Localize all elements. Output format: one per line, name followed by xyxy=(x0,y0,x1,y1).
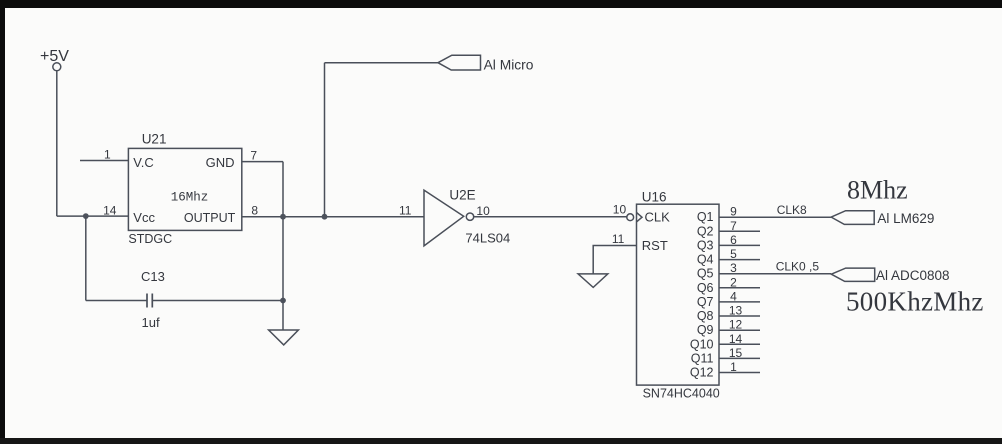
svg-text:V.C: V.C xyxy=(133,155,153,170)
Q6 pin 2 wire xyxy=(719,287,760,289)
svg-text:Q9: Q9 xyxy=(697,323,714,337)
wire xyxy=(282,162,284,330)
flag Al Micro xyxy=(438,55,534,72)
svg-text:Q6: Q6 xyxy=(697,281,714,295)
svg-text:12: 12 xyxy=(729,318,743,332)
counter U16 xyxy=(612,190,720,401)
svg-text:Al LM629: Al LM629 xyxy=(877,211,934,226)
power +5V xyxy=(40,48,69,71)
svg-text:6: 6 xyxy=(730,233,737,247)
Q12 pin 1 wire xyxy=(719,372,760,374)
junction xyxy=(280,298,286,304)
Q outputs xyxy=(719,217,831,372)
svg-text:5: 5 xyxy=(730,247,737,261)
flag Al ADC0808 xyxy=(831,268,874,281)
svg-text:Q2: Q2 xyxy=(697,224,714,238)
wire pin 7 GND xyxy=(242,161,283,163)
wire xyxy=(86,300,147,302)
svg-text:15: 15 xyxy=(729,346,743,360)
wire xyxy=(57,215,129,217)
Q8 pin 13 wire xyxy=(719,315,760,317)
svg-text:STDGC: STDGC xyxy=(128,232,172,246)
svg-text:9: 9 xyxy=(730,205,737,219)
svg-text:Q4: Q4 xyxy=(697,253,714,267)
svg-text:Q8: Q8 xyxy=(697,309,714,323)
svg-text:13: 13 xyxy=(729,304,743,318)
svg-text:U16: U16 xyxy=(642,190,667,205)
Q1 pin 9 wire xyxy=(719,216,831,218)
flag Al LM629 xyxy=(831,211,874,225)
svg-text:4: 4 xyxy=(730,289,737,303)
svg-text:2: 2 xyxy=(730,275,737,289)
svg-text:14: 14 xyxy=(103,203,117,217)
svg-text:10: 10 xyxy=(476,204,490,218)
capacitor C13 xyxy=(141,269,165,330)
svg-text:GND: GND xyxy=(206,155,235,170)
inverter U2E xyxy=(399,187,510,246)
svg-text:1: 1 xyxy=(730,360,737,374)
svg-text:+5V: +5V xyxy=(40,48,69,65)
svg-text:3: 3 xyxy=(730,261,737,275)
svg-text:Q5: Q5 xyxy=(697,267,714,281)
svg-text:RST: RST xyxy=(642,238,668,253)
oscillator U21 xyxy=(103,132,258,246)
svg-text:CLK0 ,5: CLK0 ,5 xyxy=(776,260,820,274)
wire to Al Micro xyxy=(324,63,326,217)
junction xyxy=(322,214,328,220)
svg-text:Vcc: Vcc xyxy=(133,210,155,225)
svg-text:Q12: Q12 xyxy=(690,366,714,380)
svg-text:U21: U21 xyxy=(142,132,167,147)
wire RST xyxy=(593,246,636,274)
svg-text:SN74HC4040: SN74HC4040 xyxy=(643,387,720,401)
Q7 pin 4 wire xyxy=(719,301,760,303)
svg-text:8: 8 xyxy=(251,203,258,217)
junction xyxy=(280,214,286,220)
svg-text:OUTPUT: OUTPUT xyxy=(184,211,236,225)
svg-text:10: 10 xyxy=(613,203,627,217)
wire pin 1 stub xyxy=(80,160,128,162)
svg-text:1uf: 1uf xyxy=(142,315,160,330)
Q10 pin 14 wire xyxy=(719,343,760,345)
svg-text:74LS04: 74LS04 xyxy=(465,231,510,246)
svg-text:Al Micro: Al Micro xyxy=(484,57,534,72)
wire xyxy=(325,62,439,64)
svg-text:11: 11 xyxy=(399,204,412,218)
wire pin 8 OUTPUT net xyxy=(242,216,424,218)
wire xyxy=(56,71,58,216)
Q11 pin 15 wire xyxy=(719,357,760,359)
svg-text:14: 14 xyxy=(729,332,743,346)
svg-text:Q1: Q1 xyxy=(697,210,714,224)
ground xyxy=(269,330,299,345)
junction xyxy=(83,213,89,219)
Q9 pin 12 wire xyxy=(719,329,760,331)
Q3 pin 6 wire xyxy=(719,244,760,246)
svg-text:7: 7 xyxy=(730,219,737,233)
svg-text:500KhzMhz: 500KhzMhz xyxy=(846,287,984,317)
svg-text:11: 11 xyxy=(612,232,625,246)
svg-text:16Mhz: 16Mhz xyxy=(171,191,209,205)
wire xyxy=(85,216,87,300)
svg-text:Q10: Q10 xyxy=(690,337,714,351)
svg-text:Q7: Q7 xyxy=(697,295,714,309)
Q5 pin 3 wire xyxy=(719,273,831,275)
svg-text:Q11: Q11 xyxy=(691,351,714,365)
svg-text:U2E: U2E xyxy=(449,187,475,202)
svg-text:8Mhz: 8Mhz xyxy=(847,176,908,205)
svg-text:1: 1 xyxy=(104,148,111,162)
svg-text:CLK: CLK xyxy=(645,210,671,225)
svg-text:C13: C13 xyxy=(141,269,165,284)
ground xyxy=(578,274,608,288)
svg-text:CLK8: CLK8 xyxy=(777,203,807,217)
svg-text:Q3: Q3 xyxy=(697,238,714,252)
Q2 pin 7 wire xyxy=(719,230,760,232)
svg-text:Al ADC0808: Al ADC0808 xyxy=(876,268,950,283)
Q4 pin 5 wire xyxy=(719,259,760,261)
wire xyxy=(152,300,283,302)
wire inverter out to CLK xyxy=(474,216,627,218)
svg-text:7: 7 xyxy=(250,149,257,163)
